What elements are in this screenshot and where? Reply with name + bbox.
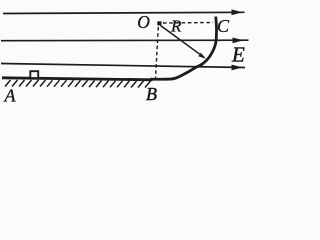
svg-text:O: O [137, 12, 150, 32]
svg-text:E: E [231, 42, 245, 66]
field line 2 (middle, with right arrowhead) [1, 38, 249, 44]
ground hatching [5, 80, 151, 88]
svg-text:B: B [146, 84, 157, 104]
field line 3 (bottom, with right arrowhead) [1, 64, 245, 71]
ground surface A-B (thick line) [2, 78, 153, 80]
dashed line O to C (horizontal) [163, 22, 213, 25]
svg-text:R: R [170, 16, 182, 35]
center point dot at O [157, 21, 161, 25]
dashed line O to B (vertical) [156, 27, 159, 79]
curved ramp B to C (quarter-circle track) [150, 17, 217, 80]
radius arrow R (from O dot to curve) [161, 26, 206, 59]
svg-text:A: A [4, 86, 17, 106]
field line 1 (top, with right arrowhead) [3, 9, 245, 15]
svg-text:C: C [217, 16, 230, 36]
block (small square on ground near A) [30, 71, 38, 78]
